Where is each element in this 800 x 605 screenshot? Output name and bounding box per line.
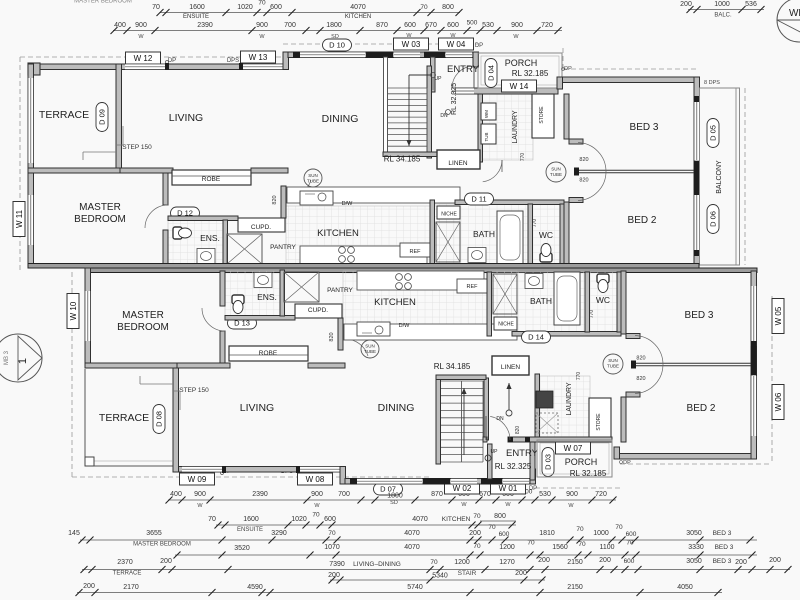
svg-text:400: 400 bbox=[114, 22, 126, 29]
svg-text:800: 800 bbox=[494, 513, 506, 520]
window label W 09 bbox=[180, 473, 215, 485]
window W 04 bbox=[446, 52, 472, 58]
svg-text:BED 3: BED 3 bbox=[685, 310, 714, 321]
svg-text:200: 200 bbox=[83, 583, 95, 590]
svg-text:D 05: D 05 bbox=[709, 125, 718, 141]
svg-text:530: 530 bbox=[482, 22, 494, 29]
svg-text:70: 70 bbox=[527, 540, 535, 547]
upper unit kitchen bench bbox=[287, 187, 460, 203]
svg-text:ENS.: ENS. bbox=[200, 233, 220, 243]
svg-text:PORCH: PORCH bbox=[565, 457, 598, 467]
svg-text:700: 700 bbox=[338, 491, 350, 498]
svg-text:TUBE: TUBE bbox=[550, 172, 562, 177]
lower unit hall-bath wall bbox=[487, 272, 492, 336]
lower unit ens north wall bbox=[225, 316, 295, 321]
svg-text:W 14: W 14 bbox=[510, 82, 529, 91]
svg-text:UP: UP bbox=[491, 449, 499, 455]
svg-text:W: W bbox=[513, 34, 519, 40]
svg-text:3520: 3520 bbox=[234, 545, 250, 552]
svg-text:7390: 7390 bbox=[329, 561, 345, 568]
svg-text:RL 32.325: RL 32.325 bbox=[451, 83, 458, 115]
lower unit pantry cupboard bbox=[284, 272, 319, 302]
upper unit kitchen tiles bbox=[286, 206, 460, 265]
lower unit bed3 top wall bbox=[614, 454, 756, 460]
svg-text:WM: WM bbox=[484, 110, 489, 118]
svg-text:MASTER: MASTER bbox=[79, 202, 121, 213]
svg-text:2150: 2150 bbox=[567, 559, 583, 566]
svg-text:70: 70 bbox=[615, 524, 623, 531]
svg-text:SUN: SUN bbox=[551, 167, 561, 172]
door D 14 bbox=[522, 331, 551, 343]
svg-text:ENSUITE: ENSUITE bbox=[183, 14, 209, 20]
svg-text:3655: 3655 bbox=[146, 530, 162, 537]
svg-text:KITCHEN: KITCHEN bbox=[345, 14, 371, 20]
svg-text:MASTER BEDROOM: MASTER BEDROOM bbox=[74, 0, 132, 5]
svg-text:BED 2: BED 2 bbox=[628, 215, 657, 226]
svg-text:D 04: D 04 bbox=[487, 65, 496, 81]
upper unit bed divider wall bbox=[578, 169, 694, 171]
lower unit entry corner wall bbox=[530, 469, 536, 484]
svg-text:LIVING: LIVING bbox=[169, 112, 203, 124]
upper unit laundry fixtures bbox=[481, 103, 496, 120]
svg-text:870: 870 bbox=[431, 491, 443, 498]
lower stair left wall bbox=[436, 378, 441, 464]
svg-text:4050: 4050 bbox=[677, 584, 693, 591]
door D 09 bbox=[96, 103, 108, 132]
svg-text:770: 770 bbox=[532, 219, 538, 228]
svg-text:LAUNDRY: LAUNDRY bbox=[566, 382, 573, 416]
svg-text:720: 720 bbox=[541, 22, 553, 29]
lower unit living-kitchen stub bbox=[308, 363, 345, 368]
upper unit master-ens wall bbox=[163, 173, 168, 205]
door D 08 bbox=[153, 405, 165, 434]
svg-text:530: 530 bbox=[539, 491, 551, 498]
svg-text:DP: DP bbox=[623, 460, 631, 466]
lower unit wall piers bbox=[423, 478, 450, 485]
svg-text:PANTRY: PANTRY bbox=[270, 244, 296, 251]
svg-text:70: 70 bbox=[328, 530, 336, 537]
lower unit robe box bbox=[229, 346, 308, 361]
upper unit laundry wall bbox=[478, 94, 483, 162]
svg-text:DINING: DINING bbox=[322, 113, 359, 125]
svg-text:MASTER BEDROOM: MASTER BEDROOM bbox=[133, 542, 191, 548]
svg-text:820: 820 bbox=[272, 195, 278, 204]
svg-text:BALC.: BALC. bbox=[714, 13, 732, 19]
lower unit sun tube kitchen bbox=[361, 340, 379, 358]
dimension row B5 line bbox=[82, 569, 790, 571]
svg-text:720: 720 bbox=[595, 491, 607, 498]
svg-text:DPS: DPS bbox=[227, 58, 239, 64]
lower unit niche bbox=[494, 317, 517, 330]
section marker circle left bbox=[0, 334, 42, 382]
upper unit wall piers bbox=[366, 52, 393, 59]
lower unit left wall bbox=[85, 268, 91, 368]
upper unit living top wall bbox=[118, 64, 288, 70]
window label W 11 left bbox=[13, 202, 25, 237]
svg-text:SUN: SUN bbox=[365, 344, 375, 349]
svg-text:W: W bbox=[197, 503, 203, 509]
upper unit hall-bath wall bbox=[430, 200, 435, 264]
window W 03 bbox=[394, 52, 420, 58]
svg-text:WB: WB bbox=[789, 8, 800, 19]
svg-text:70: 70 bbox=[420, 4, 428, 11]
svg-text:70: 70 bbox=[258, 0, 266, 7]
svg-text:KITCHEN: KITCHEN bbox=[442, 516, 471, 523]
svg-text:70: 70 bbox=[152, 4, 160, 11]
upper unit stair right wall bbox=[427, 66, 432, 158]
svg-text:200: 200 bbox=[680, 1, 692, 8]
upper unit ens tiles bbox=[168, 218, 224, 265]
door D 12 bbox=[171, 207, 200, 219]
svg-text:DP: DP bbox=[168, 58, 176, 64]
window W 09 bbox=[182, 467, 222, 473]
svg-text:LIVING: LIVING bbox=[240, 402, 274, 414]
window W 02 bbox=[451, 479, 477, 485]
svg-text:D 11: D 11 bbox=[471, 195, 486, 204]
sliding door D 06 bbox=[694, 190, 700, 250]
svg-text:900: 900 bbox=[311, 491, 323, 498]
svg-text:200: 200 bbox=[769, 557, 781, 564]
svg-text:200: 200 bbox=[599, 557, 611, 564]
upper unit pantry cupboard bbox=[227, 234, 262, 264]
svg-text:2390: 2390 bbox=[252, 491, 268, 498]
svg-text:W: W bbox=[505, 502, 511, 508]
svg-text:5340: 5340 bbox=[432, 573, 448, 580]
svg-text:ENSUITE: ENSUITE bbox=[237, 527, 263, 533]
svg-text:BEDROOM: BEDROOM bbox=[74, 214, 126, 225]
window label W 06 right bbox=[772, 385, 784, 420]
svg-text:W 09: W 09 bbox=[188, 475, 207, 484]
upper unit entry-stair wall bbox=[431, 57, 436, 92]
upper unit hall-bed wall bbox=[564, 94, 569, 139]
svg-text:SD: SD bbox=[390, 500, 398, 506]
svg-text:KITCHEN: KITCHEN bbox=[317, 228, 359, 239]
svg-text:ROBE: ROBE bbox=[259, 350, 278, 357]
svg-text:W 03: W 03 bbox=[402, 40, 421, 49]
svg-text:TUBE: TUBE bbox=[307, 179, 319, 184]
svg-text:536: 536 bbox=[745, 1, 757, 8]
lower unit step lines bbox=[140, 383, 173, 385]
door label D 05 bbox=[707, 119, 719, 148]
lower unit kitchen lower bench bbox=[357, 271, 484, 290]
door D 13 bbox=[228, 317, 257, 329]
boundary dashed upper bbox=[20, 56, 283, 58]
svg-text:REF: REF bbox=[467, 284, 479, 290]
svg-text:600: 600 bbox=[324, 516, 336, 523]
svg-text:REF: REF bbox=[410, 249, 422, 255]
svg-text:1100: 1100 bbox=[599, 544, 614, 551]
svg-text:3050: 3050 bbox=[686, 558, 702, 565]
svg-text:200: 200 bbox=[735, 559, 747, 566]
svg-text:70: 70 bbox=[208, 516, 216, 523]
window label W 13 bbox=[241, 51, 276, 63]
svg-text:W 05: W 05 bbox=[774, 306, 783, 325]
svg-text:W 04: W 04 bbox=[447, 40, 466, 49]
lower stairs double flight bbox=[440, 380, 483, 382]
window W 12 bbox=[125, 64, 165, 70]
svg-text:820: 820 bbox=[636, 376, 645, 382]
svg-text:LIVING–DINING: LIVING–DINING bbox=[353, 561, 401, 568]
svg-text:DINING: DINING bbox=[378, 402, 415, 414]
dimension row B1 line bbox=[168, 499, 616, 501]
window W 13 bbox=[243, 64, 283, 70]
upper unit niche bbox=[437, 206, 460, 219]
svg-text:NICHE: NICHE bbox=[441, 212, 457, 218]
upper unit cupd box bbox=[238, 218, 285, 232]
upper unit entry door opening bbox=[452, 88, 474, 94]
svg-text:W 12: W 12 bbox=[134, 54, 153, 63]
svg-text:DP: DP bbox=[564, 66, 572, 72]
svg-text:ROBE: ROBE bbox=[202, 176, 221, 183]
svg-text:LAUNDRY: LAUNDRY bbox=[512, 110, 519, 144]
svg-text:W 11: W 11 bbox=[15, 209, 24, 228]
svg-text:1800: 1800 bbox=[326, 22, 342, 29]
svg-text:WC: WC bbox=[596, 295, 610, 305]
upper unit step lines bbox=[83, 151, 116, 153]
svg-text:D 14: D 14 bbox=[528, 333, 544, 342]
svg-text:W: W bbox=[314, 503, 320, 509]
upper unit store closet bbox=[532, 94, 554, 138]
svg-text:900: 900 bbox=[511, 22, 523, 29]
svg-text:D 03: D 03 bbox=[544, 454, 553, 470]
svg-text:ENS.: ENS. bbox=[257, 292, 277, 302]
window W 08 bbox=[300, 467, 340, 473]
svg-text:70: 70 bbox=[473, 543, 481, 550]
svg-text:600: 600 bbox=[404, 22, 416, 29]
upper unit master top wall bbox=[28, 168, 120, 173]
dimension row B3 line bbox=[80, 539, 757, 541]
svg-text:D 08: D 08 bbox=[155, 411, 164, 427]
svg-text:800: 800 bbox=[442, 4, 454, 11]
svg-text:1200: 1200 bbox=[454, 559, 470, 566]
svg-text:BED 3: BED 3 bbox=[713, 530, 732, 537]
svg-text:W 13: W 13 bbox=[249, 53, 268, 62]
svg-text:600: 600 bbox=[270, 4, 282, 11]
svg-text:1810: 1810 bbox=[539, 530, 555, 537]
svg-text:4070: 4070 bbox=[412, 516, 428, 523]
upper unit stair arrow bbox=[409, 74, 430, 76]
upper unit ens fixtures bbox=[173, 227, 192, 239]
window W 06 bbox=[751, 376, 757, 436]
svg-text:W: W bbox=[568, 503, 574, 509]
upper unit laundry tiles bbox=[481, 94, 533, 160]
upper unit bath hall tiles bbox=[434, 204, 562, 264]
svg-text:SUN: SUN bbox=[608, 358, 618, 363]
svg-text:LINEN: LINEN bbox=[448, 160, 467, 167]
lower terrace thin outline bbox=[84, 369, 86, 466]
svg-text:SUN: SUN bbox=[308, 173, 318, 178]
dimension row T2 line bbox=[113, 30, 562, 32]
svg-text:4590: 4590 bbox=[247, 584, 263, 591]
door label D 10 bbox=[323, 39, 352, 51]
lower unit hall cupboard bbox=[493, 274, 517, 314]
svg-text:BED 2: BED 2 bbox=[687, 403, 716, 414]
sliding door D 10 bbox=[300, 52, 365, 58]
svg-text:820: 820 bbox=[636, 356, 645, 362]
svg-text:CUPD.: CUPD. bbox=[251, 224, 271, 231]
lower unit bath fixtures bbox=[554, 272, 580, 325]
svg-text:ENTRY: ENTRY bbox=[447, 64, 480, 75]
upper unit ens-pantry wall bbox=[223, 220, 228, 266]
svg-text:600: 600 bbox=[499, 531, 510, 538]
lower unit laundry wall bbox=[535, 374, 540, 442]
lower entry door arc bbox=[490, 416, 510, 440]
upper unit sun tube kitchen bbox=[304, 169, 322, 187]
upper unit stair left wall thin bbox=[384, 57, 388, 152]
lower unit cooktop bbox=[396, 283, 403, 290]
svg-text:1200: 1200 bbox=[499, 544, 515, 551]
lower unit bath-wc wall bbox=[585, 272, 590, 332]
svg-text:70: 70 bbox=[473, 513, 481, 520]
dimension row B4 line bbox=[175, 554, 757, 556]
svg-text:8 DPS: 8 DPS bbox=[704, 80, 720, 86]
svg-text:D 06: D 06 bbox=[709, 211, 718, 227]
svg-text:STORE: STORE bbox=[596, 413, 602, 431]
lower unit entry-stair wall bbox=[488, 444, 493, 479]
svg-text:TERRACE: TERRACE bbox=[99, 412, 149, 424]
upper unit hall door stubs bbox=[569, 139, 583, 144]
lower unit kitchen tiles bbox=[343, 271, 517, 330]
svg-text:UP: UP bbox=[435, 76, 443, 82]
svg-text:4070: 4070 bbox=[404, 530, 420, 537]
door label D 06 bbox=[707, 205, 719, 234]
svg-text:600: 600 bbox=[624, 558, 635, 565]
svg-text:BATH: BATH bbox=[530, 296, 552, 306]
window label W 04 bbox=[439, 38, 474, 50]
svg-text:W: W bbox=[461, 502, 467, 508]
lower unit terrace-living divider bbox=[173, 366, 179, 472]
lower unit hall-bed wall bbox=[621, 397, 626, 442]
svg-text:STAIR: STAIR bbox=[458, 570, 477, 577]
svg-text:3330: 3330 bbox=[688, 544, 704, 551]
svg-text:BED 3: BED 3 bbox=[715, 544, 734, 551]
svg-text:870: 870 bbox=[376, 22, 388, 29]
svg-text:200: 200 bbox=[328, 572, 340, 579]
svg-text:900: 900 bbox=[135, 22, 147, 29]
window W 10 in left wall bbox=[85, 291, 91, 341]
lower porch bbox=[537, 440, 612, 477]
svg-text:200: 200 bbox=[469, 530, 481, 537]
lower unit bed door arcs 820 bbox=[635, 365, 663, 394]
lower unit right wall bbox=[751, 271, 757, 459]
svg-text:1000: 1000 bbox=[593, 530, 609, 537]
svg-text:MASTER: MASTER bbox=[122, 310, 164, 321]
upper unit bath fixtures bbox=[497, 211, 523, 264]
lower unit living top wall bbox=[175, 467, 345, 473]
window W 11 in left wall bbox=[28, 195, 34, 245]
svg-text:W: W bbox=[259, 34, 265, 40]
svg-text:W 10: W 10 bbox=[69, 301, 78, 320]
svg-text:2150: 2150 bbox=[567, 584, 583, 591]
dimension row T1 right (balcony) bbox=[688, 9, 764, 11]
upper unit sun tube hall bbox=[546, 162, 566, 182]
svg-text:W 07: W 07 bbox=[564, 444, 583, 453]
svg-text:DP: DP bbox=[475, 43, 483, 49]
svg-text:STEP 150: STEP 150 bbox=[179, 387, 209, 394]
svg-text:70: 70 bbox=[576, 526, 584, 533]
lower unit wc right wall bbox=[617, 272, 622, 332]
window W 05 bbox=[751, 286, 757, 346]
svg-text:BATH: BATH bbox=[473, 229, 495, 239]
lower unit master top wall bbox=[85, 363, 177, 368]
lower unit master-ens wall bbox=[220, 331, 225, 363]
upper unit robe box bbox=[172, 170, 251, 185]
balcony outline bbox=[700, 88, 740, 265]
upper unit entry corner wall bbox=[473, 52, 479, 67]
upper unit entry-porch wall bbox=[455, 88, 558, 94]
svg-text:1600: 1600 bbox=[189, 4, 205, 11]
svg-text:2170: 2170 bbox=[123, 584, 139, 591]
svg-text:600: 600 bbox=[447, 22, 459, 29]
upper unit terrace top wall bbox=[28, 64, 119, 70]
lower laundry bbox=[536, 391, 553, 408]
lower unit dining top wall bbox=[345, 479, 535, 485]
svg-text:TUBE: TUBE bbox=[607, 364, 619, 369]
upper unit hall cupboard bbox=[436, 222, 460, 262]
upper unit living-kitchen stub bbox=[251, 168, 288, 173]
svg-text:LINEN: LINEN bbox=[501, 364, 520, 371]
upper unit stairs bbox=[388, 87, 428, 89]
svg-text:BED 3: BED 3 bbox=[713, 558, 732, 565]
svg-text:RL 32.185: RL 32.185 bbox=[512, 69, 549, 78]
svg-text:400: 400 bbox=[170, 491, 182, 498]
boundary dashed lower bbox=[71, 272, 73, 477]
lower unit store closet bbox=[589, 398, 611, 442]
upper unit kitchen lower bench bbox=[300, 246, 427, 265]
svg-text:145: 145 bbox=[68, 530, 80, 537]
svg-text:KITCHEN: KITCHEN bbox=[374, 297, 416, 308]
lower entry walls bbox=[508, 437, 612, 442]
window label W 01 bbox=[491, 482, 526, 494]
svg-text:3050: 3050 bbox=[686, 530, 702, 537]
svg-text:2370: 2370 bbox=[117, 559, 133, 566]
lower linen box bbox=[492, 356, 529, 375]
door D 11 bbox=[465, 193, 494, 205]
lower unit ens fixtures bbox=[232, 295, 244, 314]
svg-text:RL 32.325: RL 32.325 bbox=[495, 462, 532, 471]
svg-text:RL 32.185: RL 32.185 bbox=[570, 469, 607, 478]
svg-text:70: 70 bbox=[488, 524, 496, 531]
svg-text:670: 670 bbox=[479, 491, 491, 498]
svg-text:STORE: STORE bbox=[539, 106, 545, 124]
svg-text:1560: 1560 bbox=[552, 544, 568, 551]
svg-text:W: W bbox=[138, 34, 144, 40]
dimension row B6 line bbox=[77, 592, 722, 594]
svg-text:600: 600 bbox=[626, 531, 637, 538]
svg-text:W 06: W 06 bbox=[774, 392, 783, 411]
svg-text:1070: 1070 bbox=[324, 544, 340, 551]
svg-text:820: 820 bbox=[329, 332, 335, 341]
svg-text:70: 70 bbox=[430, 559, 438, 566]
lower unit sun tube hall bbox=[603, 354, 623, 374]
svg-text:2390: 2390 bbox=[197, 22, 213, 29]
svg-text:1020: 1020 bbox=[237, 4, 253, 11]
svg-text:1000: 1000 bbox=[714, 1, 730, 8]
upper unit terrace-living divider bbox=[116, 64, 122, 170]
svg-text:BED 3: BED 3 bbox=[630, 122, 659, 133]
svg-text:820: 820 bbox=[579, 178, 588, 184]
window label W 03 bbox=[394, 38, 429, 50]
upper unit left wall bbox=[28, 64, 34, 268]
upper unit cooktop bbox=[339, 247, 346, 254]
svg-text:500: 500 bbox=[467, 20, 478, 27]
svg-text:W 01: W 01 bbox=[499, 484, 518, 493]
upper unit dining top wall bbox=[288, 52, 478, 58]
lower stair arrows bbox=[463, 388, 465, 455]
svg-text:W 08: W 08 bbox=[306, 475, 325, 484]
upper unit step wall bbox=[283, 52, 289, 70]
terrace west fence bbox=[28, 78, 34, 163]
